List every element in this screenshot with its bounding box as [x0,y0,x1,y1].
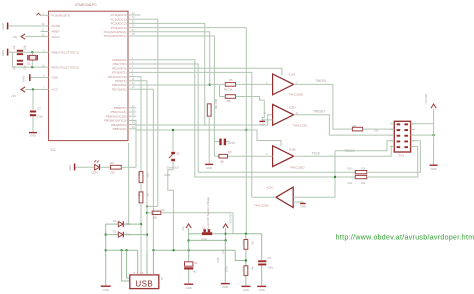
svg-text:GND: GND [259,288,265,292]
svg-text:4u7: 4u7 [193,270,198,274]
svg-text:IC1: IC1 [51,148,56,152]
svg-text:USB: USB [135,280,153,289]
junction dot sense row at 173.6 [172,249,174,251]
wire C6 to ground [261,265,263,285]
wire USB sense row right segment [153,249,235,251]
svg-text:AREF: AREF [52,30,60,34]
svg-text:10uH: 10uH [201,237,207,241]
IC1 right pin 5 PD3(INT1) stub [128,71,136,73]
IC1 right pin 28 PC5(ADC5/SCL) stub [128,35,136,37]
svg-text:74AC125D: 74AC125D [289,93,305,97]
wire S1 right stub [226,141,229,143]
wire L1 to VCC-ISP node [212,233,225,235]
IC1 right pin 16 PB2(SS/OC1B) stub [128,115,136,117]
junction dot R12 top node [209,84,211,86]
svg-text:+5V: +5V [222,249,225,254]
IC1 left pin 9 PB6(XTAL1/TOSC1) stub [41,51,49,53]
wire PC5 column down to R3 [213,142,215,157]
svg-text:AVCC: AVCC [52,35,61,39]
junction dot D2 anode node [146,233,148,235]
wire SV2 pin 6 to ground column [411,134,434,136]
ground bar below R12 [205,163,213,165]
junction dot sense row at C1 column [188,249,190,251]
wire IC2 power column down [224,240,226,282]
svg-text:X1: X1 [160,277,164,281]
reset pin tick mark [37,13,41,15]
wire IC3C input from TMISO link [293,151,335,198]
wire D2 to D- column [124,234,147,236]
resistor R6 body [225,95,235,99]
wire VBUS row to IC2 power column [189,239,226,241]
wire PC0 stub extension [136,14,140,16]
switch S1 contacts [219,139,221,146]
diode LED1 symbol [95,164,100,170]
svg-text:+5V: +5V [181,226,185,231]
wire R12 node to R5 [210,83,226,85]
ground bar IC2P [221,283,230,285]
wire D- column down [146,173,148,250]
connector SV2 right pin stubs [411,123,415,125]
wire net PD4 down to USB D+ column [136,77,141,171]
wire V1 link to D- column [147,205,158,207]
wire PD5 column into USB [152,250,154,275]
svg-text:TSCK: TSCK [312,152,321,156]
svg-text:TMOSI: TMOSI [316,79,326,83]
IC1 right pin 4 PD2(INT0) stub [128,67,136,69]
svg-text:C3: C3 [37,107,41,111]
svg-text:R10: R10 [348,167,353,171]
svg-text:PD7(AIN1): PD7(AIN1) [112,87,127,91]
wire net PC4 to R12 node [136,32,209,85]
ground AGND symbol rotated [7,23,9,30]
wire AGND to IC1 pin 22 [8,25,40,27]
svg-text:GND: GND [222,285,228,289]
wire D1 to D+ column [124,223,141,225]
wire R12 down to ground [208,116,210,163]
wire TMISO row [335,141,394,151]
svg-text:GND: GND [68,165,72,171]
wire ground rail corner to D1 row [105,224,107,285]
svg-text:VCC: VCC [52,88,59,92]
wire IC3B input row from R3 [227,155,272,157]
capacitor C1 bottom plate [184,267,193,269]
wire R11 row to SV2 pin 9 column [367,146,418,177]
svg-text:IC3C: IC3C [267,185,275,189]
wire R5 to IC3A input [236,83,273,85]
svg-text:LED1: LED1 [92,170,99,174]
IC1 right pin 15 PB1(OC1A) stub [128,111,136,113]
capacitor C5 plates [17,60,23,62]
resistor R12 body vertical [207,104,211,116]
IC1 right pin 17 PB3(MOSI/OC2) stub [128,119,136,121]
svg-text:4k7: 4k7 [251,267,254,272]
svg-text:IC3A: IC3A [289,72,296,76]
junction dot TMISO tap on R11 row [334,176,336,178]
wire D2 row [106,234,118,236]
IC1 right pin 19 PB5(SCK) stub [128,128,136,130]
junction dot VCC-ISP at L1 row [224,233,226,235]
svg-text:PB6(XTAL1/TOSC1): PB6(XTAL1/TOSC1) [52,51,79,55]
wire R13 to mid node [245,249,247,265]
svg-text:C5: C5 [12,66,16,70]
wire net PD7 down to USB sense column [136,89,153,250]
svg-text:Avoid ISP Supply Voltage: Avoid ISP Supply Voltage [206,196,210,229]
wire R6 right to PC3 column [236,96,247,98]
wire LED1 to R9 [100,166,111,168]
svg-text:C1: C1 [194,261,198,265]
wire divider top stem [245,234,247,240]
wire SCK row to switch S2 [172,130,174,151]
svg-text:R5: R5 [229,78,233,82]
svg-text:+5V: +5V [12,35,17,39]
connector SV2 pin pads [397,123,401,125]
svg-text:74AC125D: 74AC125D [290,165,306,169]
junction dot divider mid [245,259,247,261]
wire net PB4 MISO row to IC3D input [136,115,272,125]
svg-text:22p: 22p [23,65,27,70]
ground bar below R14 [241,285,250,287]
wire net PD6 to R12 junction [136,84,209,86]
diode D2 zener [118,232,123,237]
wire IC3D output TRESET [294,115,395,135]
svg-text:D2: D2 [113,229,117,233]
svg-text:GND: GND [300,205,306,209]
inductor L1 body [202,232,212,235]
wire C3 to ground [32,116,34,132]
crystal Q1 body [29,55,36,60]
ground symbol below C3 [29,132,37,134]
resistor R14 body vertical [244,266,248,276]
capacitor C6 plates [258,260,266,262]
ground bar below SV2 [430,164,438,166]
ground symbol for LED rotated [74,164,76,171]
svg-text:S2: S2 [176,152,180,156]
IC1 left pin 21 AREF stub [41,31,49,33]
junction dot shield 2 [125,249,127,251]
wire D- column into USB [146,250,148,275]
resistor R9 body [111,165,122,169]
junction dot XTAL2 node [31,66,33,68]
svg-text:R4: R4 [353,124,357,128]
svg-text:GND: GND [206,166,212,170]
svg-text:GND: GND [243,288,249,292]
IC IC1 ATMEGA8-PC body outline [49,11,129,140]
+5V supply arrow VCC-ISP [223,224,228,228]
wire VCC-ISP stem [225,228,227,240]
svg-text:Q1: Q1 [27,62,31,66]
wire net PC2 down column [136,23,204,125]
wire GND symbol to IC1 pin 8 [31,77,41,79]
crystal Q1 plates [27,55,29,60]
svg-text:R6 72k: R6 72k [224,88,233,92]
wire C1 stem [188,250,190,261]
svg-text:PB7(XTAL2/TOSC2): PB7(XTAL2/TOSC2) [52,65,79,69]
wire +5V arrow to VCC pin [25,89,40,91]
junction dot XTAL1 node [31,51,33,53]
IC1 right pin 6 PD4(XCK/T0) stub [128,76,136,78]
junction dot SCK switch tap [172,129,174,131]
wire net PB5 SCK row to IC3B enable [136,130,281,146]
wire net PD3 to receiver gate output column [136,72,251,196]
junction dot rail USB ground row [105,249,107,251]
IC1 right pin 11 PD5(T1) stub [128,80,136,82]
junction dot rail D2 row [105,233,107,235]
svg-text:VCONT: VCONT [424,93,428,103]
svg-text:12: 12 [263,112,266,115]
svg-text:100n: 100n [37,115,43,119]
svg-text:GND: GND [52,76,60,80]
wire VCC node down to C3 [32,90,34,110]
junction dot divider top [245,233,247,235]
IC1 left pin 22 AGND stub [41,25,49,27]
junction dot PD5 column USB [152,249,154,251]
capacitor C3 plates [30,111,36,113]
wire net PC3 to divider column [136,28,246,235]
wire +5V arrow to AVCC pin [25,36,40,38]
IC1 right pin 26 PC3(ADC3) stub [128,27,136,29]
wire L1 left leg [189,233,202,235]
svg-text:GND: GND [1,23,5,29]
wire net PB3 to LED column [135,120,137,167]
IC1 right pin 14 PB0(ICP) stub [128,107,136,109]
svg-text:PC6(/RESET): PC6(/RESET) [52,14,71,18]
op-amp IC3D buffer 74AC125 triangle [273,104,294,125]
wire ground rail down to C5 row [12,52,14,67]
wire R14 to ground [245,276,247,286]
wire SV2 pin 2 to VCONT [411,109,434,124]
svg-text:22k: 22k [227,99,232,103]
wire shield pin 2 down [127,250,130,278]
USB pin name marks [133,272,136,275]
diode D1 zener [118,222,123,227]
ground bar below C6 [257,285,266,287]
svg-text:http://www.obdev.at/avrusb/avr: http://www.obdev.at/avrusb/avrdoper.html [336,235,474,242]
IC1 right pin 13 PD7(AIN1) stub [128,88,136,90]
wire S2 down to GND net [168,161,174,250]
svg-text:GND: GND [164,173,170,177]
resistor R2 body vertical [139,192,143,203]
wire R4 to SV2 pin 1 [363,128,395,130]
wire C5 row to XTAL2 pin [13,66,41,68]
resistor R1 body [152,211,161,214]
wire ground to LED1 [75,166,94,168]
wire IC3A output TMOSI [294,84,353,129]
connector SV2 body [394,121,410,152]
wire R2 down to D1 node [140,203,142,272]
resistor R3 body [219,154,228,158]
wire net PD2 to IC3A enable [136,68,282,75]
wire C1 to ground [188,270,190,284]
IC3C enable stub to ground [293,202,303,203]
connector SV2 left pin stubs [390,123,394,125]
wire L1 row to divider and C6 [226,233,262,235]
op-amp IC3A buffer 74AC125 triangle [273,74,294,95]
wire IC3C output to PD0 column [252,196,276,198]
wire divider sense link [235,250,246,260]
IC1 right pin 2 PD0(RXD) stub [128,59,136,61]
switch S2 contacts [171,152,175,154]
svg-text:R13: R13 [242,241,245,246]
svg-text:74AC125D: 74AC125D [293,123,309,127]
junction dot D1 node [140,223,142,225]
svg-text:C6: C6 [267,256,271,260]
wire USB ground row left segment [106,250,138,275]
svg-text:R11: R11 [348,181,353,185]
resistor R11 body [355,175,366,178]
svg-text:+5V: +5V [11,94,16,98]
svg-text:10k: 10k [220,159,225,163]
svg-text:R12 7k5: R12 7k5 [214,99,218,110]
junction dot R1 tap [146,212,148,214]
svg-text:10k: 10k [361,181,366,185]
svg-text:ATMEGA8-PC: ATMEGA8-PC [75,3,97,7]
+5V supply arrow for AVCC [21,34,25,39]
IC3D enable stub to ground [262,120,272,121]
IC1 left pin 7 VCC stub [41,89,49,91]
wire VBUS arrow stem [188,228,190,250]
svg-text:C4: C4 [12,45,16,49]
wire ground to C4 top plate / XTAL1 row [8,51,40,53]
junction dot VBUS node [187,239,189,241]
svg-text:IC2P: IC2P [216,257,220,263]
IC1 right pin 25 PC2(ADC2) stub [128,22,136,24]
VCONT supply arrow [431,104,436,108]
svg-text:R9: R9 [110,161,114,165]
resistor R4 body [352,127,362,131]
IC1 left pin 1 PC6(/RESET) stub [41,14,49,16]
svg-text:220: 220 [110,170,115,174]
wire crystal vertical link [31,52,33,67]
wire R10 row to SV2 pin 7 column [367,141,421,172]
svg-text:VCC-INT: VCC-INT [229,213,232,224]
wire C6 stem [261,234,263,260]
svg-text:PB5(SCK): PB5(SCK) [113,127,127,131]
ground bar USB rail [101,285,111,287]
svg-text:GND: GND [430,167,436,171]
wire D+ column into USB [140,272,142,275]
resistor R5 body [225,83,235,87]
wire D1 row [106,223,118,225]
wire stray column below IC1 [128,143,130,224]
svg-text:SV2: SV2 [399,153,405,157]
svg-text:GND: GND [259,122,265,126]
resistor R10 body [355,171,366,174]
svg-text:10k: 10k [251,241,254,246]
IC1 right pin 23 PC0(ADC0) stub [128,14,136,16]
junction dot shield 1 [120,249,122,251]
wire R1 tap to body [147,212,152,214]
svg-text:10k: 10k [361,167,366,171]
ground bar IC3C enable [300,203,306,205]
svg-text:PC5(ADC5/SCL): PC5(ADC5/SCL) [104,34,127,38]
wire IC3B output TSCK [294,146,395,156]
IC1 right pin 12 PD6(AIN0) stub [128,84,136,86]
svg-text:IC3B: IC3B [289,148,296,152]
IC1 left pin 20 AVCC stub [41,36,49,38]
junction dot VCC-ISP at VBUS row [224,239,226,241]
svg-text:GND: GND [103,288,109,292]
wire R8 to R2 [140,183,142,192]
svg-text:D1: D1 [113,219,117,223]
op-amp IC3B buffer 74AC125 triangle [273,146,294,167]
wire VCONT column to ground [433,124,435,165]
junction dot SV2 ground node [432,134,434,136]
IC1 left pin 8 GND stub [41,77,49,79]
capacitor C4 plates [17,50,23,52]
junction dot PC3 net at SCK row [245,129,247,131]
wire R1 to pull-up column [161,213,233,234]
resistor R13 body vertical [244,240,248,250]
svg-text:100n: 100n [267,265,273,269]
wire R6 staircase to IC3D enable [246,97,264,120]
ground symbol for IC1 GND pin rotated [29,74,31,81]
+5V supply arrow for VCC [21,87,25,92]
connector X1 USB body [130,275,159,289]
IC1 right pin 27 PC4(ADC4/SDA) stub [128,31,136,33]
wire shield pin 1 down [122,250,130,281]
wire PC5 column to S1 [214,141,219,143]
IC1 right pin 24 PC1(ADC1) stub [128,18,136,20]
ground bar IC3D enable [259,120,265,122]
svg-text:22p: 22p [23,45,27,50]
svg-text:100n: 100n [226,266,229,272]
svg-text:GND: GND [22,76,26,82]
wire R9 to PB3 column [121,166,136,168]
wire net PD0 to R11 row [136,60,355,177]
svg-text:IC3D: IC3D [289,105,297,109]
wire column to R3 left [214,155,219,157]
svg-text:GND: GND [1,50,5,56]
junction dot VCC node [32,88,34,90]
wire net PC1 to vertical V1 [136,19,157,206]
svg-text:74AC125D: 74AC125D [254,204,270,208]
svg-text:GND: GND [186,286,192,290]
IC1 left pin 10 PB7(XTAL2/TOSC2) stub [41,66,49,68]
junction dot V1 bottom [146,205,148,207]
resistor R8 body vertical [139,172,143,183]
svg-text:R14: R14 [242,267,245,272]
svg-text:1k5: 1k5 [153,216,158,220]
+5V supply arrow USB VBUS [186,224,191,228]
svg-text:AGND: AGND [52,24,62,28]
svg-text:GND: GND [30,134,36,138]
capacitor C1 polarized top electrode [185,262,193,266]
IC1 right pin 3 PD1(TXD) stub [128,63,136,65]
svg-text:TRESET: TRESET [313,110,326,114]
op-amp IC3C buffer 74AC125 reversed triangle [276,187,293,207]
ground bar below C1 [184,283,193,285]
wire R6 left leg up to MOSI row [220,84,226,96]
wire net PC5 to S1 column [136,36,214,142]
svg-text:R1: R1 [162,208,166,212]
svg-text:R3: R3 [228,150,232,154]
wire net PD5 down to USB D- column [136,81,147,173]
ground symbol for crystal caps rotated [7,49,9,56]
wire net PD1 to R10 row [136,64,355,172]
IC1 right pin 18 PB4(MISO) stub [128,124,136,126]
